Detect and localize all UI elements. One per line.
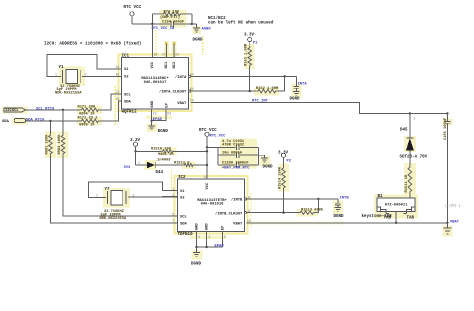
power flag 3.3V pullup	[244, 33, 258, 46]
svg-text:/INTB: /INTB	[231, 198, 243, 203]
wire SCL row	[26, 94, 122, 110]
svg-text:Y1: Y1	[59, 66, 65, 70]
svg-text:R1512 0: R1512 0	[174, 162, 190, 166]
node rail caps tap	[206, 146, 208, 148]
ground DGND under C183	[290, 88, 301, 101]
crystal Y7	[96, 188, 135, 221]
svg-text:3.3V: 3.3V	[244, 33, 255, 37]
svg-text:C195 100nF: C195 100nF	[444, 118, 448, 140]
pin bubble /INTB	[244, 198, 246, 200]
svg-text:SDA: SDA	[2, 120, 10, 124]
wire riser left of R74	[151, 14, 153, 24]
svg-text:VCC: VCC	[151, 61, 155, 69]
svg-text:NC2: NC2	[173, 61, 177, 69]
resistor R171	[78, 106, 101, 117]
svg-text:TAB: TAB	[384, 216, 392, 220]
pin bubble /INTA	[189, 75, 191, 77]
highlight dotted column near top ground	[202, 36, 204, 55]
wire battery pin	[395, 212, 397, 223]
svg-text:072-000011: 072-000011	[385, 203, 409, 207]
highlight dotted column IC2 right	[250, 193, 252, 228]
svg-text:SCL: SCL	[180, 216, 188, 220]
node INTA-R162	[284, 75, 286, 77]
svg-text:RTC_VCC: RTC_VCC	[210, 135, 227, 139]
svg-text:NDK-NX3215SA: NDK-NX3215SA	[55, 91, 82, 95]
resistor R163 pullup	[245, 43, 252, 67]
svg-text:GND: GND	[196, 223, 200, 231]
svg-text:VCC: VCC	[206, 182, 210, 190]
port I2C0_SDA	[2, 119, 26, 125]
resistor R74	[152, 10, 191, 20]
node pullup junction	[249, 90, 251, 92]
svg-text:GND: GND	[151, 100, 155, 108]
power flag RTC_VCC mid	[199, 129, 226, 147]
wire riser right of R74	[192, 14, 197, 24]
wire VBAT U2	[247, 222, 448, 224]
rail RTC_VCC to U2	[206, 147, 208, 179]
svg-text:E2: E2	[153, 112, 157, 116]
svg-text:A1: A1	[116, 65, 120, 69]
pin bubble /INTA_CLKOUT	[189, 90, 191, 92]
svg-text:RTC_VCC_IN: RTC_VCC_IN	[152, 27, 176, 31]
svg-text:046-001018: 046-001018	[201, 202, 225, 206]
node battery to VBAT	[395, 222, 397, 224]
wire pullup to CLKOUT row	[249, 67, 251, 91]
svg-text:5: 5	[224, 235, 226, 239]
diode D45	[400, 113, 428, 165]
node rail branch1	[206, 150, 208, 152]
svg-text:R74 100: R74 100	[164, 10, 180, 14]
svg-text:C194 100nF: C194 100nF	[162, 21, 184, 25]
port I2C0_SCL	[4, 108, 26, 113]
resistor R982	[58, 134, 65, 156]
svg-text:EPAD: EPAD	[153, 118, 163, 122]
svg-text:1: 1	[55, 73, 57, 77]
svg-text:Y7: Y7	[105, 188, 111, 192]
svg-text:R1513 0805: R1513 0805	[301, 209, 324, 213]
svg-text:B1: B1	[378, 195, 384, 199]
svg-text:GND: GND	[206, 223, 210, 231]
node rail branch2	[206, 164, 208, 166]
no-connect X marks	[165, 42, 175, 44]
svg-text:C4: C4	[190, 98, 194, 102]
svg-text:DGND: DGND	[263, 165, 274, 169]
svg-text:SDA: SDA	[180, 222, 188, 226]
pin NC1 stub	[165, 44, 167, 58]
svg-text:1: 1	[138, 160, 140, 164]
svg-text:+BAT_PWR_RTC: +BAT_PWR_RTC	[222, 166, 250, 170]
svg-text:6: 6	[172, 212, 174, 216]
node SCL	[62, 109, 64, 111]
node VBAT rail left	[409, 112, 411, 114]
wire VCC pin U1	[151, 24, 153, 58]
svg-text:7: 7	[172, 219, 174, 223]
crystal Y1	[55, 66, 87, 95]
svg-text:/INTB_CLKOUT: /INTB_CLKOUT	[215, 211, 243, 216]
resistor R1513	[299, 209, 324, 215]
capacitor C1031	[222, 140, 245, 150]
power flag 3.3V mid	[130, 139, 141, 165]
svg-text:R1514 100K: R1514 100K	[278, 166, 282, 189]
wire VBAT U1	[191, 102, 448, 113]
capacitor C194	[162, 21, 184, 27]
svg-text:X2: X2	[124, 76, 129, 80]
svg-text:D45: D45	[400, 129, 408, 133]
svg-text:C2: C2	[162, 52, 166, 56]
svg-text:WQFN12: WQFN12	[122, 111, 138, 115]
svg-text:R163 1.00M: R163 1.00M	[245, 43, 249, 66]
svg-text:TAB: TAB	[407, 216, 415, 220]
wire /INTB_CLKOUT	[247, 199, 319, 213]
svg-text:DGND: DGND	[290, 98, 301, 102]
resistor R1511	[405, 165, 412, 198]
svg-text:10u 0805A: 10u 0805A	[222, 151, 243, 155]
svg-text:NDK-NX3215SA: NDK-NX3215SA	[100, 217, 127, 221]
highlight dotted column top	[155, 30, 157, 56]
crystal Y7 loop wires	[88, 182, 177, 197]
svg-text:EP: EP	[165, 102, 169, 107]
svg-text:SDA: SDA	[124, 101, 132, 105]
svg-text:2: 2	[85, 73, 87, 77]
node VBAT rail right	[446, 112, 448, 114]
node INTB-R	[317, 198, 319, 200]
svg-text:B2: B2	[154, 52, 158, 56]
resistor R1510	[151, 148, 174, 158]
IC U1 MAX11311	[122, 55, 189, 115]
wire /INTB	[247, 198, 338, 200]
wire /INTA	[191, 75, 296, 77]
node VBAT bottom right	[446, 222, 448, 224]
resistor R162	[256, 87, 279, 93]
capacitor C1033	[222, 151, 243, 157]
svg-text:(DNP-FIT): (DNP-FIT)	[160, 15, 180, 20]
node SDA	[49, 120, 51, 122]
highlight halos layer	[2, 10, 453, 260]
svg-text:/INTA: /INTA	[175, 75, 187, 80]
highlight dotted column left middle	[114, 86, 116, 125]
svg-text:can be left NC when unused: can be left NC when unused	[208, 20, 274, 25]
wire branch1	[136, 150, 207, 152]
ground stubs U2	[195, 232, 224, 249]
svg-text:DGND: DGND	[191, 262, 202, 266]
wire SDA drop to U2	[50, 121, 177, 223]
svg-text:D3: D3	[167, 112, 171, 116]
svg-text:I2C0: ADDRESS = 1101000 = 0x68: I2C0: ADDRESS = 1101000 = 0x68 (fixed)	[44, 42, 141, 47]
svg-text:X1: X1	[180, 190, 185, 194]
power flag 3.3V right	[278, 151, 292, 166]
svg-text:2: 2	[133, 193, 135, 197]
svg-text:/INTA_CLKOUT: /INTA_CLKOUT	[159, 90, 187, 95]
svg-text:X1: X1	[124, 68, 129, 72]
wire /INTA_CLKOUT	[191, 76, 285, 91]
svg-text:DGND: DGND	[193, 39, 204, 43]
battery holder B1	[362, 195, 416, 220]
svg-text:B1: B1	[116, 72, 120, 76]
svg-text:INTB: INTB	[340, 197, 350, 201]
wire SCL drop to U2	[63, 110, 178, 216]
svg-text:R1511 1K: R1511 1K	[405, 174, 409, 192]
svg-text:DGND: DGND	[334, 215, 345, 219]
svg-text:R981 100K: R981 100K	[45, 134, 49, 155]
wire caps bus	[207, 147, 259, 165]
ground DGND bottom right	[443, 223, 451, 234]
ground DGND under U1	[148, 109, 168, 134]
pin NC2 stub	[173, 44, 175, 58]
capacitor C1200	[222, 162, 250, 171]
resistor R981	[45, 134, 52, 156]
highlight dotted column middle	[170, 171, 172, 191]
svg-text:INTA: INTA	[298, 83, 308, 87]
svg-text:SOT23-A 70V: SOT23-A 70V	[400, 156, 428, 160]
capacitor C184	[335, 199, 341, 205]
svg-text:TDFN10: TDFN10	[178, 233, 194, 237]
node left	[151, 23, 153, 25]
svg-text:C1200 1000nF: C1200 1000nF	[222, 162, 249, 166]
IC U2 MAX11313	[178, 176, 245, 237]
svg-text:IC2: IC2	[178, 176, 186, 180]
ground DGND under U2	[191, 247, 202, 266]
svg-text:R982 100K: R982 100K	[58, 134, 62, 155]
node right	[191, 23, 193, 25]
svg-text:X2: X2	[180, 196, 185, 200]
svg-text:3: 3	[198, 235, 200, 239]
capacitor C183	[293, 76, 307, 88]
svg-text:1: 1	[96, 193, 98, 197]
svg-text:D2: D2	[175, 52, 179, 56]
svg-text:VBAT: VBAT	[233, 222, 243, 226]
svg-text:(+)3V(-): (+)3V(-)	[445, 203, 460, 207]
ground DGND top	[193, 24, 212, 43]
svg-text:RTC VCC: RTC VCC	[199, 129, 217, 133]
ground DGND under C184	[334, 205, 345, 219]
svg-text:0805 1%: 0805 1%	[79, 123, 95, 127]
svg-text:3.3V: 3.3V	[130, 139, 141, 143]
svg-text:IC1: IC1	[122, 55, 130, 59]
node pullup U2	[282, 212, 284, 214]
svg-text:14: 14	[203, 175, 207, 179]
ground DGND caps	[259, 155, 274, 169]
wire SDA row	[26, 101, 122, 121]
svg-text:2: 2	[414, 116, 416, 120]
power flag RTC_VCC top	[124, 6, 142, 24]
svg-text:NC1/NC2: NC1/NC2	[208, 16, 226, 21]
resistor R172	[78, 117, 101, 128]
svg-text:470R C1032: 470R C1032	[222, 144, 244, 148]
svg-text:R1510 200: R1510 200	[151, 148, 171, 152]
svg-text:R162 1.00M: R162 1.00M	[256, 87, 279, 91]
svg-text:4: 4	[208, 235, 210, 239]
svg-text:046-001017: 046-001017	[144, 81, 168, 85]
svg-text:3V3: 3V3	[124, 166, 132, 170]
node 3.3V branch	[134, 150, 136, 152]
note NC1/NC2	[208, 16, 274, 26]
svg-text:3.3V: 3.3V	[278, 151, 289, 155]
capacitor C195	[444, 113, 451, 222]
pin numbers U2	[172, 175, 251, 239]
svg-text:NC1: NC1	[165, 61, 169, 69]
svg-text:SCL: SCL	[124, 94, 132, 98]
svg-text:VBAT: VBAT	[177, 102, 187, 106]
svg-text:R171 240: R171 240	[78, 106, 96, 110]
svg-text:0805 1%: 0805 1%	[158, 153, 174, 157]
svg-text:RTC VCC: RTC VCC	[124, 6, 142, 10]
svg-text:EPAD: EPAD	[215, 244, 225, 248]
resistor R1514 pullup	[278, 166, 285, 190]
svg-text:VBAT: VBAT	[450, 220, 460, 224]
svg-text:I2CSCL: I2CSCL	[5, 109, 19, 113]
svg-text:P1: P1	[253, 42, 258, 46]
wire top rail	[132, 23, 192, 25]
svg-text:D44: D44	[156, 171, 164, 175]
svg-text:.1n4003: .1n4003	[155, 159, 171, 163]
svg-text:EP: EP	[221, 225, 225, 230]
diode D44	[136, 159, 184, 176]
resistor R1512	[174, 162, 207, 167]
svg-text:DGND: DGND	[158, 130, 169, 134]
pin bubble /INTB_CLKOUT	[244, 212, 246, 214]
pin numbers U1	[116, 52, 194, 115]
svg-text:R172 23.2: R172 23.2	[78, 117, 98, 121]
wire pullup to U2 CLKOUT	[283, 190, 285, 213]
crystal Y1 loop wires	[47, 55, 122, 77]
svg-text:AGND: AGND	[202, 28, 212, 32]
svg-text:P2: P2	[287, 159, 292, 163]
svg-text:0805 1%: 0805 1%	[79, 112, 95, 116]
